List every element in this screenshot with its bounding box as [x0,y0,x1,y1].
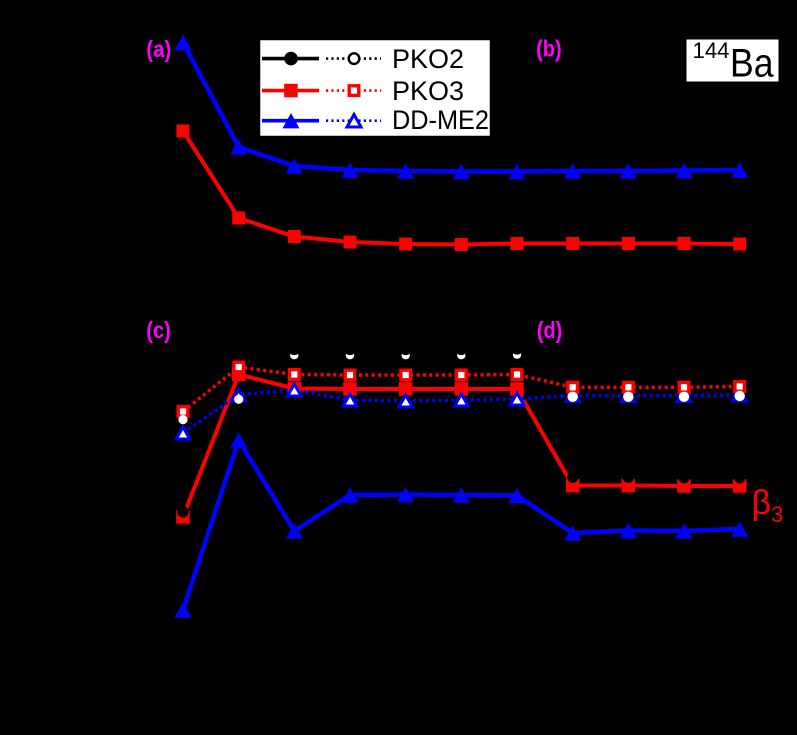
svg-text:PKO3: PKO3 [392,76,464,106]
bottom red filled squares [176,368,746,524]
144Ba nucleus label box [687,40,779,82]
bottom panel red dotted curve [183,367,740,412]
top panel red PKO3 curve [183,131,740,245]
svg-text:Ba: Ba [730,42,774,86]
top panel blue DD-ME2 curve [183,43,740,172]
svg-text:(d): (d) [537,317,562,343]
svg-text:DD-ME2: DD-ME2 [392,105,489,135]
legend row DD-ME2 [262,119,319,123]
bottom panel blue solid beta3 DD-ME2 curve [183,440,740,610]
black filled circles PKO2 (visible as bites) [177,343,745,518]
legend row PKO3 [262,89,319,93]
svg-text:(c): (c) [146,317,171,343]
svg-text:144: 144 [693,38,730,63]
bottom white open circles PKO2 [178,351,745,425]
svg-text:(a): (a) [146,36,171,62]
bottom panel red solid beta3 PKO3 curve [183,375,740,518]
bottom blue filled triangles [175,432,749,618]
legend box [259,39,491,137]
svg-text:(b): (b) [536,36,562,62]
bottom panel blue dotted curve [183,390,740,433]
svg-text:PKO2: PKO2 [392,44,464,74]
bottom red open squares [178,362,744,416]
legend row PKO2 [262,57,319,61]
bottom blue open triangles [176,384,746,439]
